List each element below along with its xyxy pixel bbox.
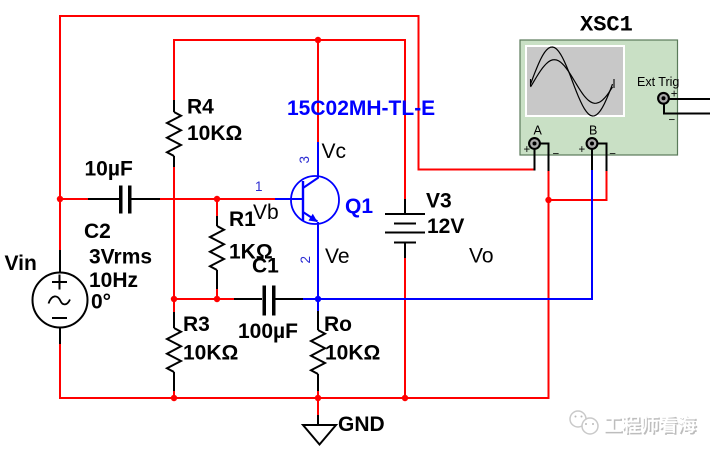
svg-text:3: 3 [297,156,312,164]
wire: Ro top blue stub [317,299,319,312]
wire: collector blue segment [317,142,319,178]
wire: R3 bottom stub [173,390,175,399]
node: ground rail GND [315,395,321,401]
transistor Q1 [291,176,339,224]
svg-text:Ext Trig: Ext Trig [637,75,679,89]
svg-text:A: A [534,124,543,138]
scope trace B [531,60,613,104]
svg-text:100µF: 100µF [238,320,298,343]
node: R1 bottom [214,296,220,302]
svg-text:2: 2 [298,256,313,264]
node: scope A-/B- junction [545,197,551,203]
svg-text:R4: R4 [187,96,214,119]
oscilloscope XSC1 [520,40,679,160]
wire: outer red loop bottom (Vin bottom, ground rail, scope A- feed) [60,170,549,398]
svg-text:+: + [579,144,586,156]
resistor R1 [210,216,224,289]
wire: C2 left lead [88,198,119,200]
svg-text:−: − [669,115,676,127]
wire: bias divider vertical x=174 (R4 bottom to R3 top) [173,167,175,313]
svg-text:15C02MH-TL-E: 15C02MH-TL-E [287,97,435,120]
scope trace A [531,47,613,116]
node: input/C2 junction [57,196,63,202]
wire: base lead blue [275,198,303,200]
capacitor C1 [264,286,274,316]
wire: emitter down to node [317,222,319,300]
wire: input horizontal y=199 right segment to base [159,198,276,200]
wire: C1 to emitter node blue [303,298,319,300]
wire: output bus to scope B+ [318,170,592,299]
svg-text:−: − [553,148,560,160]
svg-text:C1: C1 [252,255,279,278]
svg-text:C2: C2 [84,220,111,243]
svg-text:Ve: Ve [325,245,350,268]
battery V3 [385,199,425,258]
svg-text:0°: 0° [91,291,111,314]
svg-text:Vin: Vin [5,252,37,275]
svg-text:Vc: Vc [322,140,347,163]
svg-text:10Hz: 10Hz [89,269,138,292]
svg-text:10KΩ: 10KΩ [187,122,242,145]
resistor R4 [167,100,181,167]
node: Vcc rail / collector [315,37,321,43]
svg-text:Vb: Vb [253,201,279,224]
svg-text:V3: V3 [426,190,452,213]
wire: Vcc rail y=40 from R4 top to V3 top [174,40,405,199]
svg-text:10µF: 10µF [85,158,133,181]
svg-text:10KΩ: 10KΩ [183,342,238,365]
wire: R1 bottom stub [216,288,218,300]
wire: Vin bottom stub [59,327,61,344]
svg-text:Ro: Ro [324,313,352,336]
node: ground rail R3 [171,395,177,401]
wire: C1 left lead [234,298,262,300]
svg-text:GND: GND [338,413,385,436]
node: emitter output junction [315,296,321,302]
wire: R1 top stub [216,199,218,217]
wire: Ro bottom / GND stub [317,390,319,416]
svg-text:XSC1: XSC1 [580,13,633,38]
wire: collector feed red from Vcc rail [317,40,319,142]
wire: C2 right lead [132,198,161,200]
svg-text:Vo: Vo [469,244,494,267]
wire: horizontal y=299 from divider to C1 [174,298,235,300]
svg-text:1: 1 [255,179,263,194]
resistor R3 [167,312,181,391]
wire: GND stub black [317,415,319,426]
node: base bias / R1 top [214,196,220,202]
wire: blue emitter/output net [275,142,592,312]
node: ground rail V3 [402,395,408,401]
capacitor C2 [121,186,130,214]
wire: black segments [60,99,710,426]
svg-text:工程师看海: 工程师看海 [604,415,697,436]
wire: V3 bottom to ground rail [404,257,406,399]
wire: scope A- to B- link y=200 [549,170,607,200]
wire: input horizontal y=199 left segment [59,198,89,200]
wire: scope B- hook [598,144,607,172]
ac source Vin [33,273,88,328]
svg-text:R3: R3 [183,313,210,336]
svg-text:+: + [524,144,531,156]
resistor Ro [311,311,325,391]
watermark logo [570,411,598,434]
wire: C1 right lead [276,298,305,300]
wire: scope A+ stub [534,148,536,171]
svg-text:−: − [609,148,616,160]
svg-text:10KΩ: 10KΩ [325,342,380,365]
node: divider / y299 left [171,296,177,302]
wire: Vin top stub [59,250,61,273]
svg-text:B: B [589,124,597,138]
wire: scope B+ stub [591,148,593,171]
wire: outer red loop top (Vin top to scope A+ feed) [59,16,607,416]
ground [303,425,336,445]
svg-text:3Vrms: 3Vrms [89,246,152,269]
svg-text:12V: 12V [427,215,464,238]
wire: scope A- hook [540,144,549,172]
wire: Ext Trig minus wire [664,104,710,114]
svg-text:Q1: Q1 [345,195,373,218]
wire: Ext Trig plus wire [669,98,710,100]
